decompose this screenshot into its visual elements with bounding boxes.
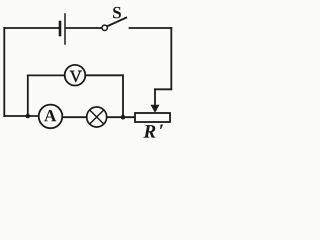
voltmeter V	[65, 65, 86, 86]
node junction left	[26, 114, 31, 119]
slider arrow stem	[154, 89, 156, 106]
wire bottom horizontal	[4, 115, 45, 117]
wire voltmeter branch left vertical	[27, 75, 29, 116]
wire top-left (corner to battery)	[4, 27, 59, 29]
ammeter A	[39, 105, 63, 129]
wire elbow to slider	[155, 88, 171, 90]
label R'	[143, 125, 155, 137]
rheostat R' body	[135, 113, 170, 122]
wire battery to switch	[66, 27, 102, 29]
node junction right	[121, 115, 126, 120]
switch S	[102, 18, 126, 31]
wire voltmeter branch right vertical	[122, 75, 124, 117]
wire bottom horizontal right	[45, 116, 135, 118]
wire voltmeter branch right horizontal	[85, 74, 123, 76]
wire left vertical	[3, 28, 5, 116]
wire switch to top-right corner	[130, 27, 172, 29]
wire voltmeter branch left horizontal	[28, 74, 65, 76]
slider arrowhead	[151, 105, 159, 112]
battery cell	[60, 14, 65, 44]
wire right vertical	[170, 28, 172, 89]
lamp	[87, 107, 107, 127]
label R' prime mark	[160, 125, 163, 129]
label S	[113, 7, 121, 18]
